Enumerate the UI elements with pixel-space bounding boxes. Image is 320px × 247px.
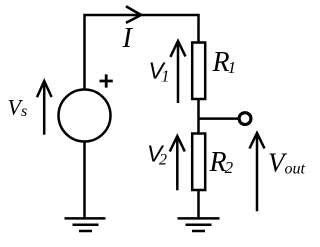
- wire R1 to R2: [197, 99, 200, 134]
- svg-text:Vs: Vs: [8, 95, 28, 121]
- resistor R2: [192, 134, 205, 191]
- svg-text:R2: R2: [209, 147, 234, 178]
- svg-text:I: I: [122, 23, 134, 54]
- svg-text:V1: V1: [149, 58, 170, 86]
- current I arrowhead on top wire: [126, 6, 141, 23]
- arrow V1: [177, 41, 180, 103]
- svg-text:Vout: Vout: [268, 148, 306, 178]
- arrow Vs: [43, 81, 46, 135]
- wire source bottom to ground: [83, 142, 86, 219]
- plus sign polarity mark: [100, 74, 113, 87]
- ground (right): [178, 218, 220, 231]
- wire R2 to ground: [197, 190, 200, 218]
- wire junction to output node: [199, 117, 239, 120]
- voltage source VS circle: [59, 90, 111, 142]
- output node open circle: [239, 113, 251, 125]
- svg-text:V2: V2: [147, 141, 167, 169]
- svg-text:R1: R1: [212, 47, 237, 78]
- ground (left): [65, 218, 106, 231]
- resistor R1: [192, 43, 205, 100]
- wire top loop: source top to R1 top: [85, 15, 199, 90]
- arrow Vout: [256, 133, 259, 211]
- arrow V2: [176, 136, 179, 190]
